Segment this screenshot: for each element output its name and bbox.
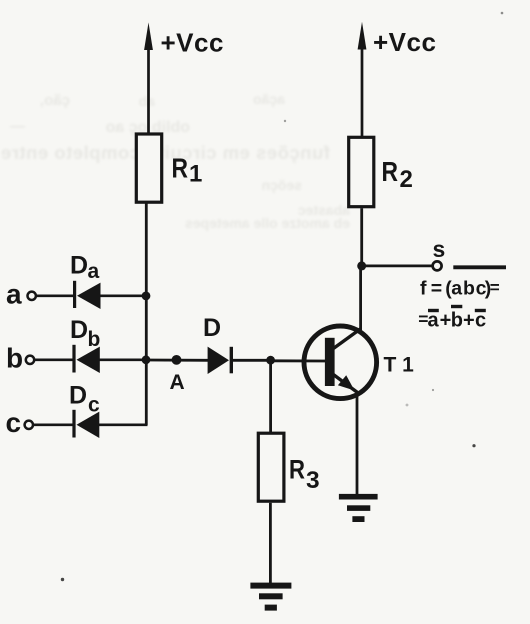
ground (emitter): [339, 494, 378, 522]
wire: R2 down to output junction: [360, 208, 363, 266]
resistor R3: [258, 433, 319, 501]
svg-text:D: D: [70, 316, 88, 344]
node b: input terminal: [6, 343, 34, 374]
node a: input terminal: [6, 279, 36, 310]
wire: junction to transistor base: [271, 359, 326, 362]
wire: R3 to ground: [269, 503, 272, 584]
junction dot (a line / bus): [142, 292, 151, 301]
svg-text:+Vcc: +Vcc: [373, 27, 436, 57]
wire: bus to node A and diode D: [146, 359, 208, 362]
junction dot (base / R3): [266, 356, 275, 365]
svg-text:a: a: [6, 279, 22, 310]
ground (below R3): [250, 583, 291, 611]
wire: junction down to R3: [269, 360, 272, 432]
power symbol +Vcc (right): [358, 22, 437, 137]
svg-text:2: 2: [400, 166, 413, 193]
wire: vertical bus from R1 down to c-line corner: [145, 204, 148, 426]
terminal S: [433, 236, 446, 270]
diode D: [203, 314, 231, 374]
svg-text:+Vcc: +Vcc: [161, 28, 224, 58]
wire: junction to output S: [362, 264, 433, 267]
resistor R2: [349, 137, 413, 206]
svg-text:D: D: [203, 314, 221, 342]
bleed-through text from reverse page: [0, 91, 350, 231]
svg-text:f=(abc): f=(abc): [420, 277, 491, 299]
svg-text:R: R: [289, 455, 305, 485]
svg-text:3: 3: [306, 467, 320, 494]
svg-text:ação: ação: [253, 91, 285, 107]
junction dot (b line / bus): [142, 355, 151, 364]
svg-text:seõçn: seõçn: [262, 177, 302, 193]
svg-text:R: R: [382, 156, 399, 187]
svg-text:b: b: [88, 328, 101, 351]
transistor T1: [304, 326, 414, 399]
node c: input terminal: [6, 407, 34, 438]
node A: [170, 355, 185, 394]
diode Dc: [69, 382, 100, 439]
wire: diode Dc to bus corner: [99, 423, 148, 426]
wire: diode Da to bus: [100, 294, 146, 297]
svg-text:ção,: ção,: [40, 92, 70, 109]
overbar of (abc): [453, 265, 506, 269]
svg-text:A: A: [170, 371, 185, 394]
junction dot (collector / output): [357, 261, 366, 270]
resistor R1: [136, 134, 202, 202]
svg-text:D: D: [70, 252, 88, 280]
wire: input a to diode Da: [36, 294, 73, 297]
svg-text:c: c: [88, 394, 100, 417]
label f = (abc): [420, 277, 500, 299]
svg-text:funções em circuito completo e: funções em circuito completo entre: [0, 142, 330, 163]
svg-text:R: R: [172, 153, 189, 184]
svg-text:=: =: [490, 278, 500, 297]
wire: input b to diode Db: [35, 358, 73, 361]
svg-text:b: b: [6, 343, 23, 374]
diode Db: [70, 316, 100, 373]
svg-text:c: c: [6, 407, 22, 438]
svg-text:a: a: [88, 260, 100, 283]
svg-text:eb amotze olle ametepes: eb amotze olle ametepes: [185, 215, 350, 231]
svg-text:a+b+c: a+b+c: [428, 310, 487, 332]
dust specks: [61, 12, 504, 582]
wire: diode Db to bus: [99, 358, 146, 361]
svg-text:T 1: T 1: [384, 354, 415, 377]
svg-text:D: D: [69, 382, 87, 410]
label = a+b+c (negated): [418, 307, 486, 332]
wire: junction down to collector: [359, 266, 362, 330]
wire: emitter down to ground: [356, 393, 359, 497]
svg-text:—: —: [10, 118, 25, 135]
svg-text:1: 1: [189, 161, 202, 188]
wire: collector up: [359, 329, 362, 332]
diode Da: [70, 252, 101, 310]
svg-text:s: s: [433, 236, 446, 262]
wire: input c to diode Dc: [34, 423, 73, 426]
svg-text:=: =: [418, 309, 428, 329]
svg-text:ab: ab: [139, 93, 155, 109]
power symbol +Vcc (left): [144, 23, 224, 134]
wire: diode D to base junction: [231, 359, 270, 362]
